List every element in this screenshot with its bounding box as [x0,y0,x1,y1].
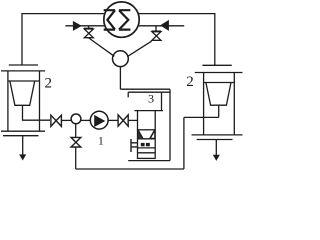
suction cup 2 right : body sides [204,73,235,135]
suction cup 2 left : plate [1,70,45,72]
wire right rail drop [214,13,216,65]
svg-text:1: 1 [98,136,104,148]
valve 3 internal lines [138,139,156,153]
check valve arrow left (filled) [73,21,82,31]
suction cup 2 right : cup top line [204,82,235,84]
shutoff valve mid (bowtie) [118,115,128,126]
wire bowtie to valve 3 [128,119,137,121]
svg-text:2: 2 [44,76,52,92]
shutoff valve left (bowtie) [51,115,62,126]
shutoff valve lower (vertical bowtie) [71,137,81,147]
wire pump to valve [108,119,118,121]
wire bottom U riser right [183,117,185,169]
wire top rail right [138,13,215,15]
suction cup 2 right : mounting bar [202,64,231,66]
valve 3 body box [138,130,156,159]
valve 3 poppet wedge left (filled) [138,131,143,139]
wire node to pump [81,119,91,121]
wire bottom U left drop [75,147,77,169]
suction cup 2 left : cup top line [8,80,40,82]
wire feed right side down [169,89,171,160]
valve 3 top bar [134,110,163,112]
wire left intake line [65,25,105,27]
valve 3 blocked port blocks [141,143,145,146]
vacuum pump U1 (top center circle) [104,2,139,37]
wire top rail left [22,13,105,15]
suction cup 2 left : mounting bar [9,64,38,66]
wire left rail drop [21,13,23,65]
suction cup 2 left : bottom plate [1,130,45,132]
rotor chevron left (inside U1) [104,10,115,29]
exhaust arrow right [215,140,217,156]
valve 3 actuator plunger [131,139,138,152]
wire feed bottom across [128,160,170,162]
rotor chevron right (inside U1) [119,10,130,29]
wire right intake line [138,25,184,27]
node circle (manifold) [71,114,81,124]
wire right valve stem [155,26,157,31]
suction cup 2 right : exhaust bar [197,139,233,141]
valve 3 enclosure top [128,92,170,97]
valve 3 poppet wedge right [150,131,154,138]
wire feed horizontal [120,88,170,90]
pump 1 triangle (filled) [94,115,105,127]
suction cup 2 right : bottom plate [192,134,243,136]
wire cup stem left [23,105,51,120]
wire junction drop [119,67,121,90]
bar right valve [152,30,161,32]
suction cup 2 right : plate [195,72,243,74]
wire node drop [75,124,77,138]
wire right cup stem [218,105,220,117]
wire bowtie to node [61,119,71,121]
exhaust arrow left [22,136,24,155]
wire diagonal right to junction [127,41,152,57]
junction node circle [113,51,129,67]
relief valve right (vertical bowtie) [152,32,161,41]
suction cup 2 right : cup trapezoid [206,83,231,106]
svg-text:2: 2 [186,74,194,90]
wire bottom U across [76,168,184,170]
check valve arrow right (filled) [160,20,169,31]
suction cup 2 left : body sides [8,71,40,131]
wire left valve stem [88,26,90,28]
svg-text:3: 3 [148,92,154,106]
wire diagonal left to junction [89,38,114,56]
suction cup 2 left : cup trapezoid [10,81,35,105]
suction cup 2 left : exhaust bar [3,135,39,137]
pump 1 circle [90,111,108,129]
relief valve left (vertical bowtie) [84,29,93,38]
bar left valve [84,27,93,29]
wire valve 3 port legs [138,111,156,130]
wire riser to right cup stem [184,116,219,118]
wire valve 3 right port drop [161,92,163,110]
